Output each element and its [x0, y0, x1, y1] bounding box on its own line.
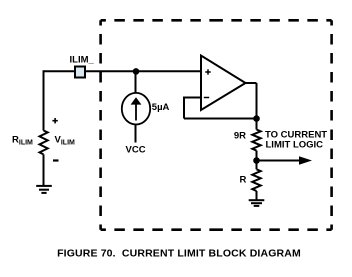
svg-text:ILIM_: ILIM_ — [70, 54, 95, 65]
svg-text:9R: 9R — [234, 131, 246, 142]
svg-text:VILIM: VILIM — [55, 134, 76, 146]
svg-text:5µA: 5µA — [152, 102, 170, 113]
svg-text:R: R — [240, 175, 247, 186]
svg-text:VCC: VCC — [126, 144, 146, 155]
svg-text:FIGURE 70. CURRENT LIMIT BLOC: FIGURE 70. CURRENT LIMIT BLOCK DIAGRAM — [57, 248, 301, 260]
svg-text:LIMIT LOGIC: LIMIT LOGIC — [266, 140, 324, 151]
svg-text:RILIM: RILIM — [12, 134, 33, 146]
